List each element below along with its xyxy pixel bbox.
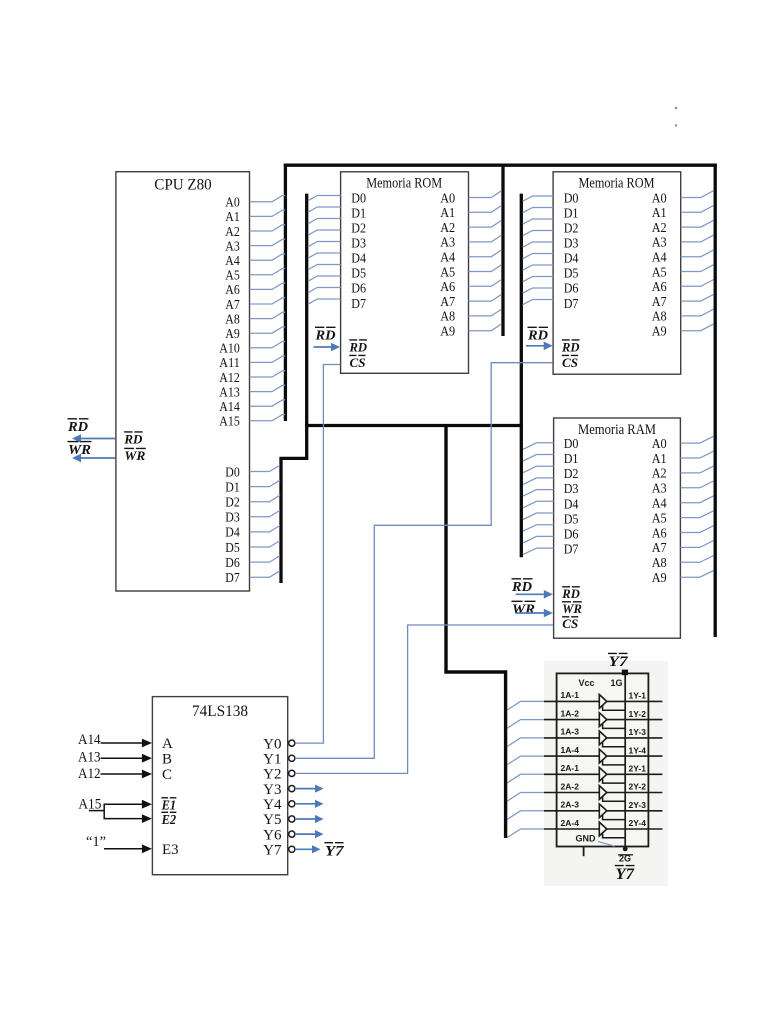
wire RAM A9 to bus: [680, 570, 713, 577]
decoder U6 74LS138 body: [152, 697, 287, 875]
svg-text:Y7: Y7: [616, 866, 636, 883]
wire ROM1 A5 to bus: [469, 265, 502, 272]
wire CPU A6 to address bus: [250, 283, 286, 289]
wire ROM2 A0 to bus: [681, 191, 714, 198]
buffer gate 1 triangle: [599, 695, 607, 709]
wire ROM1 data 1 to bus: [308, 207, 341, 212]
buffer gate 2 output line: [606, 719, 662, 721]
svg-text:A7: A7: [652, 541, 667, 556]
svg-text:D1: D1: [225, 480, 240, 495]
svg-text:A9: A9: [225, 327, 240, 342]
wire WR arrow into RAM: [516, 612, 546, 614]
svg-text:D0: D0: [351, 191, 366, 206]
memory U3 ROM2 body: [553, 172, 681, 374]
wire RAM A4 to bus: [680, 496, 713, 503]
buffer gate 7 enable hook: [603, 815, 626, 819]
pin 2A-3 input line: [544, 810, 599, 812]
svg-text:D2: D2: [564, 221, 579, 236]
svg-text:Y7: Y7: [263, 843, 282, 859]
buffer gate 6 enable hook: [603, 797, 626, 801]
svg-text:WR: WR: [562, 602, 582, 616]
svg-text:A2: A2: [652, 221, 667, 236]
svg-text:Y7: Y7: [325, 844, 344, 860]
wire data bus to buffer 2A-2: [507, 793, 545, 802]
pin 1A-1 input line: [544, 700, 599, 702]
buffer gate 5 triangle: [599, 767, 607, 781]
svg-text:A11: A11: [219, 356, 240, 371]
wire RD arrow into RAM: [516, 593, 546, 595]
pin Y4 inverter bubble: [289, 801, 295, 807]
pin Y3 inverter bubble: [289, 786, 295, 792]
wire ROM2 data 2 to bus: [523, 219, 553, 224]
wire RAM data 0 to bus: [523, 443, 554, 450]
wire RAM A2 to bus: [680, 466, 713, 473]
svg-text:A: A: [162, 736, 173, 752]
svg-text:A0: A0: [652, 437, 667, 452]
buffer gate 3 enable hook: [603, 742, 626, 746]
wire ROM2 data 6 to bus: [523, 265, 553, 270]
svg-text:D4: D4: [564, 252, 579, 267]
wire RAM data 3 to bus: [523, 478, 554, 485]
wire RAM data 9 to bus: [523, 548, 554, 555]
pin Y1 inverter bubble: [289, 755, 295, 761]
wire address-bus top horizontal: [284, 163, 717, 166]
svg-text:2Y-2: 2Y-2: [629, 782, 647, 792]
svg-text:A9: A9: [652, 571, 667, 586]
wire ROM1 data 2 to bus: [308, 219, 341, 224]
svg-text:A0: A0: [440, 191, 455, 206]
wire Y4 stub arrow: [295, 803, 317, 805]
svg-text:CS: CS: [562, 356, 578, 370]
wire ROM2 data 8 to bus: [523, 288, 553, 293]
svg-text:Y7: Y7: [609, 654, 629, 670]
svg-text:A1: A1: [440, 206, 455, 221]
wire net Y0 to ROM1 CS: [295, 365, 340, 744]
svg-text:1Y-4: 1Y-4: [629, 745, 647, 755]
svg-text:D1: D1: [351, 206, 366, 221]
svg-text:GND: GND: [576, 834, 597, 844]
buffer gate 5 enable hook: [603, 779, 626, 783]
wire CPU A0 to address bus: [250, 196, 286, 202]
svg-text:A8: A8: [652, 310, 667, 325]
wire Y6 stub arrow: [295, 833, 317, 835]
svg-text:D6: D6: [564, 282, 579, 297]
svg-text:Y4: Y4: [263, 797, 282, 813]
svg-text:D0: D0: [564, 191, 579, 206]
wire ROM2 data 1 to bus: [523, 208, 553, 213]
wire Y3 stub arrow: [295, 788, 317, 790]
wire CPU A9 to address bus: [250, 327, 286, 333]
wire RAM A8 to bus: [680, 556, 713, 563]
pin Y6 inverter bubble: [289, 831, 295, 837]
svg-text:A12: A12: [219, 371, 240, 386]
memory U5 RAM body: [554, 418, 681, 638]
wire A15 stub: [89, 810, 104, 812]
svg-text:2Y-1: 2Y-1: [629, 764, 647, 774]
wire RAM data 5 to bus: [523, 501, 554, 508]
wire data bus to buffer 2A-4: [507, 829, 545, 838]
wire ROM1 data 4 to bus: [308, 242, 341, 247]
svg-text:A7: A7: [440, 295, 455, 310]
CPU U1 Z80 body: [116, 172, 250, 591]
pin Y0 inverter bubble: [289, 740, 295, 746]
ground stub GND: [583, 847, 585, 856]
wire CPU A4 to address bus: [250, 254, 286, 260]
wire A15 fork vertical: [103, 804, 105, 818]
svg-text:A15: A15: [219, 415, 240, 430]
buffer gate 7 triangle: [599, 804, 607, 818]
wire CPU A14 to address bus: [250, 400, 286, 406]
svg-text:A3: A3: [652, 482, 667, 497]
svg-text:A4: A4: [652, 497, 667, 512]
svg-text:1A-4: 1A-4: [561, 745, 580, 755]
pin Y7 inverter bubble: [289, 846, 295, 852]
wire A15 to pin E2: [104, 818, 144, 820]
wire data-bus vertical ROM2/RAM: [520, 194, 523, 558]
wire CPU D0 to data bus: [250, 465, 280, 471]
wire ROM1 A6 to bus: [469, 280, 502, 287]
svg-text:A4: A4: [652, 251, 667, 266]
wire CPU A2 to address bus: [250, 225, 286, 231]
wire RAM A5 to bus: [680, 511, 713, 518]
svg-text:D3: D3: [564, 482, 579, 497]
svg-text:WR: WR: [512, 603, 535, 618]
svg-text:1G: 1G: [611, 678, 623, 688]
stray scan dots top right: [675, 107, 678, 110]
wire ROM2 A6 to bus: [681, 280, 714, 287]
buffer gate 3 triangle: [599, 731, 607, 745]
wire ROM1 data 8 to bus: [308, 288, 341, 293]
svg-text:D5: D5: [225, 541, 240, 556]
wire CPU D2 to data bus: [250, 495, 280, 501]
svg-text:A2: A2: [652, 467, 667, 482]
wire CPU A11 to address bus: [250, 356, 286, 362]
node 1G square: [622, 670, 628, 676]
svg-text:1A-2: 1A-2: [561, 708, 580, 718]
pin 2A-4 input line: [544, 828, 599, 830]
buffer gate 1 output line: [606, 700, 662, 702]
wire ROM2 data 0 to bus: [523, 196, 553, 201]
svg-text:D5: D5: [564, 267, 579, 282]
svg-text:2Y-3: 2Y-3: [629, 800, 647, 810]
svg-text:A5: A5: [652, 511, 667, 526]
svg-text:A8: A8: [440, 310, 455, 325]
wire data-bus horizontal: [305, 424, 523, 427]
wire CPU D5 to data bus: [250, 541, 280, 547]
buffer gate 4 triangle: [599, 749, 607, 763]
wire ROM1 data 0 to bus: [308, 196, 341, 201]
svg-text:A2: A2: [440, 221, 455, 236]
svg-text:A1: A1: [652, 206, 667, 221]
wire RAM data 1 to bus: [523, 455, 554, 462]
svg-text:E1: E1: [161, 798, 176, 813]
svg-text:A8: A8: [225, 312, 240, 327]
wire CPU A13 to address bus: [250, 385, 286, 391]
wire CPU D3 to data bus: [250, 510, 280, 516]
wire A12 to pin C: [101, 773, 144, 775]
svg-text:A1: A1: [652, 452, 667, 467]
wire ROM1 A8 to bus: [469, 309, 502, 316]
pin Y2 inverter bubble: [289, 770, 295, 776]
svg-text:D4: D4: [351, 252, 366, 267]
wire RAM data 7 to bus: [523, 525, 554, 532]
svg-text:A14: A14: [219, 400, 240, 415]
svg-text:D3: D3: [225, 511, 240, 526]
wire Y5 stub arrow: [295, 818, 317, 820]
svg-text:2A-4: 2A-4: [561, 818, 580, 828]
svg-text:1A-3: 1A-3: [561, 727, 580, 737]
wire RD arrow into ROM2: [526, 345, 545, 347]
svg-text:D0: D0: [225, 465, 240, 480]
wire CPU A10 to address bus: [250, 342, 286, 348]
wire CPU A15 to address bus: [250, 415, 286, 421]
svg-text:Memoria RAM: Memoria RAM: [578, 422, 656, 438]
pin 1A-2 input line: [544, 719, 599, 721]
node 2G dot: [623, 847, 628, 852]
svg-text:A8: A8: [652, 556, 667, 571]
svg-text:D1: D1: [564, 206, 579, 221]
svg-text:A3: A3: [440, 236, 455, 251]
svg-text:CPU Z80: CPU Z80: [154, 176, 212, 193]
wire CPU D6 to data bus: [250, 556, 280, 562]
svg-text:RD: RD: [561, 587, 580, 601]
svg-text:Y1: Y1: [263, 752, 281, 768]
svg-text:Memoria ROM: Memoria ROM: [366, 176, 442, 192]
svg-text:D6: D6: [564, 528, 579, 543]
svg-text:D4: D4: [225, 526, 240, 541]
wire CPU A7 to address bus: [250, 298, 286, 304]
wire RAM data 2 to bus: [523, 466, 554, 473]
svg-text:A7: A7: [225, 298, 240, 313]
svg-text:D7: D7: [564, 297, 579, 312]
wire data bus to buffer 1A-1: [507, 701, 545, 710]
wire A14 to pin A: [101, 742, 144, 744]
wire ROM1 data 3 to bus: [308, 230, 341, 235]
wire data-bus branch to buffer U4: [446, 426, 506, 839]
svg-text:A9: A9: [440, 325, 455, 340]
wire data bus to buffer 2A-3: [507, 811, 545, 820]
wire ROM2 A3 to bus: [681, 235, 714, 242]
svg-text:Y6: Y6: [263, 827, 282, 843]
svg-text:E2: E2: [161, 812, 177, 827]
buffer gate 3 output line: [606, 737, 662, 739]
svg-text:Y2: Y2: [263, 767, 281, 783]
svg-text:A5: A5: [440, 265, 455, 280]
svg-text:WR: WR: [124, 449, 145, 463]
wire ROM1 A1 to bus: [469, 206, 502, 213]
wire ROM2 A7 to bus: [681, 294, 714, 301]
wire RAM data 4 to bus: [523, 490, 554, 497]
svg-text:A4: A4: [225, 254, 240, 269]
wire data bus to buffer 1A-4: [507, 756, 545, 765]
wire ROM2 data 7 to bus: [523, 277, 553, 282]
svg-text:1Y-1: 1Y-1: [629, 691, 647, 701]
wire A13 to pin B: [101, 757, 144, 759]
svg-text:2A-2: 2A-2: [561, 781, 580, 791]
svg-text:RD: RD: [123, 433, 142, 447]
pin 1A-4 input line: [544, 755, 599, 757]
wire ROM1 data 5 to bus: [308, 253, 341, 258]
svg-text:1Y-3: 1Y-3: [629, 727, 647, 737]
wire ROM2 data 4 to bus: [523, 242, 553, 247]
svg-text:A3: A3: [225, 239, 240, 254]
svg-text:RD: RD: [67, 420, 88, 435]
wire ROM2 A1 to bus: [681, 206, 714, 213]
wire ROM1 data 6 to bus: [308, 265, 341, 270]
pin Y5 inverter bubble: [289, 816, 295, 822]
svg-text:2A-1: 2A-1: [561, 763, 580, 773]
svg-text:A2: A2: [225, 225, 240, 240]
wire CPU D1 to data bus: [250, 480, 280, 486]
svg-text:RD: RD: [527, 328, 548, 343]
svg-text:A13: A13: [219, 385, 240, 400]
wire ROM1 A9 to bus: [469, 324, 502, 331]
wire net Y1 to ROM2 CS: [295, 363, 553, 759]
svg-text:D1: D1: [564, 452, 579, 467]
svg-text:1A-1: 1A-1: [561, 690, 580, 700]
svg-text:A12: A12: [78, 766, 101, 782]
wire address-bus drop to ROM1: [501, 165, 504, 337]
svg-text:A6: A6: [225, 283, 240, 298]
svg-text:74LS138: 74LS138: [192, 703, 248, 720]
wire data bus to buffer 1A-3: [507, 738, 545, 747]
svg-text:2Y-4: 2Y-4: [629, 818, 647, 828]
svg-text:A7: A7: [652, 295, 667, 310]
buffer gate 4 enable hook: [603, 761, 626, 765]
svg-text:D5: D5: [564, 512, 579, 527]
wire CPU A12 to address bus: [250, 371, 286, 377]
wire CPU A8 to address bus: [250, 312, 286, 318]
svg-text:E3: E3: [162, 842, 179, 858]
svg-text:D2: D2: [564, 467, 579, 482]
wire RAM A3 to bus: [680, 481, 713, 488]
wire ROM1 data 9 to bus: [308, 299, 341, 304]
svg-text:RD: RD: [314, 329, 335, 344]
svg-text:A1: A1: [225, 210, 240, 225]
wire CPU D4 to data bus: [250, 526, 280, 532]
wire CPU WR out arrow: [80, 457, 116, 459]
svg-text:C: C: [162, 767, 172, 783]
svg-text:Vcc: Vcc: [579, 678, 595, 688]
svg-text:A6: A6: [440, 280, 455, 295]
buffer gate 7 output line: [606, 810, 662, 812]
svg-text:A6: A6: [652, 526, 667, 541]
pin 1A-3 input line: [544, 737, 599, 739]
svg-text:A5: A5: [225, 269, 240, 284]
wire RAM A7 to bus: [680, 541, 713, 548]
wire RAM A0 to bus: [680, 436, 713, 443]
svg-text:Memoria ROM: Memoria ROM: [579, 176, 655, 192]
wire data bus to buffer 2A-1: [507, 774, 545, 783]
svg-text:A14: A14: [78, 732, 101, 748]
pin 2A-2 input line: [544, 792, 599, 794]
svg-text:D4: D4: [564, 497, 579, 512]
svg-text:D3: D3: [564, 237, 579, 252]
svg-text:A5: A5: [652, 265, 667, 280]
svg-text:D6: D6: [351, 282, 366, 297]
wire CPU D7 to data bus: [250, 571, 280, 577]
wire RD arrow into ROM1: [314, 346, 333, 348]
buffer gate 8 triangle: [599, 822, 607, 836]
wire RAM data 6 to bus: [523, 513, 554, 520]
wire ROM1 A0 to bus: [469, 191, 502, 198]
svg-text:CS: CS: [350, 356, 366, 370]
wire ROM1 A2 to bus: [469, 220, 502, 227]
wire RAM A1 to bus: [680, 451, 713, 458]
svg-text:D7: D7: [225, 571, 240, 586]
svg-text:Y0: Y0: [263, 736, 281, 752]
wire blue tick near GND: [598, 842, 615, 847]
svg-text:D3: D3: [351, 237, 366, 252]
wire ROM2 data 5 to bus: [523, 254, 553, 259]
svg-text:D7: D7: [351, 297, 366, 312]
wire ROM2 data 9 to bus: [523, 300, 553, 305]
wire address-bus right vertical to ROM2/RAM: [714, 165, 717, 638]
wire data bus to buffer 1A-2: [507, 720, 545, 729]
buffer gate 6 output line: [606, 792, 662, 794]
buffer gate 8 output line: [606, 828, 662, 830]
buffer gate 2 enable hook: [603, 724, 626, 728]
wire address-bus vertical from CPU: [284, 164, 287, 421]
wire ROM2 A2 to bus: [681, 220, 714, 227]
buffer gate 8 enable hook: [603, 833, 626, 837]
wire ROM1 data 7 to bus: [308, 276, 341, 281]
buffer gate 6 triangle: [599, 786, 607, 800]
wire CPU RD out arrow: [80, 438, 116, 440]
svg-text:RD: RD: [511, 580, 532, 595]
buffer gate 2 triangle: [599, 713, 607, 727]
wire CPU A5 to address bus: [250, 269, 286, 275]
wire CPU A3 to address bus: [250, 239, 286, 245]
wire ROM2 A4 to bus: [681, 250, 714, 257]
wire RAM data 8 to bus: [523, 536, 554, 543]
wire Y7 stub arrow: [295, 848, 314, 850]
wire ROM1 A3 to bus: [469, 235, 502, 242]
buffer U4 body: [557, 673, 649, 846]
svg-text:A0: A0: [652, 191, 667, 206]
svg-text:A6: A6: [652, 280, 667, 295]
wire ROM2 data 3 to bus: [523, 231, 553, 236]
wire data-bus vertical ROM1/CPU with jog: [281, 194, 307, 583]
buffer gate 4 output line: [606, 755, 662, 757]
svg-text:CS: CS: [562, 617, 578, 631]
wire logic1 to pin E3: [104, 848, 143, 850]
svg-text:D2: D2: [225, 496, 240, 511]
buffer enable line 1G/2G: [624, 673, 626, 847]
svg-text:“1”: “1”: [86, 834, 106, 850]
wire ROM2 A5 to bus: [681, 265, 714, 272]
svg-text:A10: A10: [219, 342, 240, 357]
wire A15 to pin E1: [104, 803, 144, 805]
wire ROM1 A4 to bus: [469, 250, 502, 257]
wire ROM2 A8 to bus: [681, 309, 714, 316]
svg-text:2A-3: 2A-3: [561, 800, 580, 810]
svg-text:Y5: Y5: [263, 812, 281, 828]
pin 2A-1 input line: [544, 773, 599, 775]
svg-text:1Y-2: 1Y-2: [629, 709, 647, 719]
svg-text:A9: A9: [652, 325, 667, 340]
wire net Y2 to RAM CS: [295, 625, 553, 773]
wire CPU A1 to address bus: [250, 210, 286, 216]
wire ROM2 A9 to bus: [681, 324, 714, 331]
svg-text:RD: RD: [348, 340, 367, 354]
svg-text:A4: A4: [440, 251, 455, 266]
buffer gate 5 output line: [606, 773, 662, 775]
svg-text:D2: D2: [351, 221, 366, 236]
svg-text:RD: RD: [561, 340, 580, 354]
svg-text:D6: D6: [225, 556, 240, 571]
buffer U4 74LS244 scan background: [544, 661, 668, 886]
